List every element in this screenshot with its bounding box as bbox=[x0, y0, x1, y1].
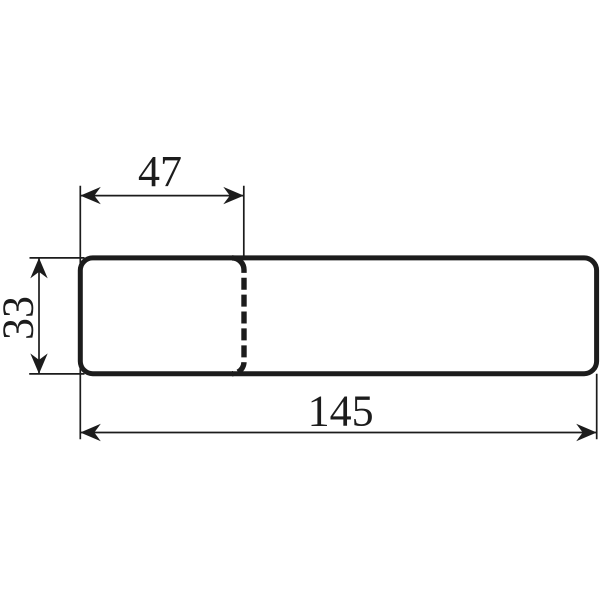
svg-text:33: 33 bbox=[0, 296, 42, 340]
svg-text:47: 47 bbox=[138, 147, 182, 196]
svg-text:145: 145 bbox=[308, 387, 374, 436]
